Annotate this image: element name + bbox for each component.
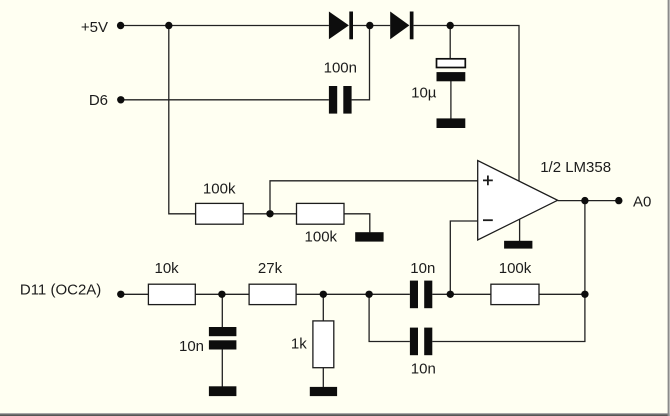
svg-text:D6: D6 <box>89 92 108 109</box>
capacitor C4 10n <box>410 328 432 356</box>
svg-text:100k: 100k <box>203 180 236 197</box>
node junction R3-R4 <box>218 291 225 298</box>
svg-text:D11 (OC2A): D11 (OC2A) <box>20 282 101 299</box>
wire op-amp output to A0 <box>558 200 619 202</box>
capacitor C1 100n <box>329 86 352 114</box>
resistor R5 100k <box>491 284 539 304</box>
op-amp U1 1/2 LM358 <box>478 161 558 240</box>
node junction +5V branch <box>165 22 172 29</box>
right window border <box>668 0 670 416</box>
terminal +5V <box>117 22 124 29</box>
resistor R4 27k <box>249 284 296 304</box>
node junction R4 out <box>320 291 327 298</box>
wire D6 to C1 <box>121 99 329 101</box>
wire op-amp - input to feedback node <box>450 221 477 294</box>
svg-text:1k: 1k <box>291 335 307 352</box>
terminal D6 <box>117 96 124 103</box>
resistor R3 10k <box>148 284 195 304</box>
wire +5V branch down to R1 <box>169 26 196 214</box>
wire R1 to R2 <box>243 213 296 215</box>
ground under C5 <box>437 118 466 128</box>
wire output node down to feedback node <box>584 201 586 295</box>
svg-text:A0: A0 <box>633 193 651 210</box>
bottom window border <box>0 413 670 414</box>
resistor R1 100k <box>196 203 244 224</box>
wire C5 bottom plate to ground <box>450 81 452 119</box>
ground under op-amp <box>504 241 532 249</box>
node junction C4 branch <box>365 291 372 298</box>
wire junction down to C5 top plate <box>449 26 451 59</box>
node junction R5 out <box>581 291 588 298</box>
ground under R6 <box>310 387 337 396</box>
svg-text:10µ: 10µ <box>411 85 437 102</box>
wire R2 right side to ground <box>344 214 370 233</box>
wire C3 to R5 <box>432 293 491 295</box>
svg-text:100k: 100k <box>305 229 338 246</box>
node junction between diodes <box>366 22 373 29</box>
wire +5V rail to D1 anode <box>121 25 329 27</box>
terminal A0 <box>615 197 622 204</box>
svg-text:10n: 10n <box>410 260 435 277</box>
wire D2 cathode to top-right corner down to op-amp V+ pin <box>414 26 519 183</box>
node feedback junction <box>447 291 454 298</box>
terminal D11 <box>117 291 124 298</box>
svg-text:10n: 10n <box>411 360 436 377</box>
svg-text:100n: 100n <box>324 59 357 76</box>
svg-text:100k: 100k <box>499 260 532 277</box>
capacitor C2 10n vertical <box>209 327 237 350</box>
svg-text:+5V: +5V <box>81 19 108 36</box>
svg-text:10k: 10k <box>155 260 180 277</box>
diode D2 <box>390 12 413 40</box>
resistor R6 1k <box>313 321 334 368</box>
capacitor C3 10n <box>410 281 432 309</box>
wire lower C4 branch right <box>432 294 585 341</box>
node junction at C5 <box>447 22 454 29</box>
wire 1k resistor stems <box>322 294 324 387</box>
wire R5 to output node <box>539 293 585 295</box>
svg-text:27k: 27k <box>258 260 283 277</box>
wire R3 to R4 <box>195 293 249 295</box>
wire node up and right to op-amp + input <box>270 181 478 214</box>
diode D1 <box>329 12 353 40</box>
ground under C2 <box>209 386 237 396</box>
wire D1 cathode to D2 anode <box>353 25 390 27</box>
capacitor C5 10u electrolytic <box>437 59 466 81</box>
svg-text:10n: 10n <box>179 338 204 355</box>
wire R4 to C3 <box>296 293 410 295</box>
wire C1 right side up to diode junction <box>352 26 370 100</box>
svg-text:1/2 LM358: 1/2 LM358 <box>540 159 611 176</box>
wire D11 terminal to R3 <box>121 293 149 295</box>
node junction R1-R2 <box>266 210 273 217</box>
ground under R2 <box>355 232 383 241</box>
wire lower C4 branch left <box>369 294 410 341</box>
wire op-amp ground pin stem <box>519 220 521 242</box>
resistor R2 100k <box>297 203 345 224</box>
node output junction <box>581 197 588 204</box>
wire C2 stems <box>221 294 223 387</box>
